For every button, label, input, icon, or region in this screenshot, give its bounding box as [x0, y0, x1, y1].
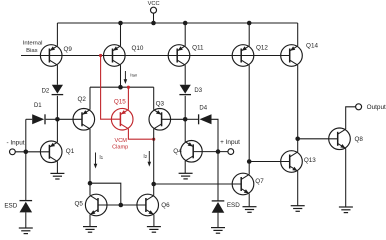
transistor Q10: [104, 45, 126, 67]
wire Q8 collector to output: [346, 107, 356, 129]
wire Q8 base: [298, 138, 338, 140]
wire Q13 emitter: [297, 171, 299, 206]
svg-text:Clamp: Clamp: [112, 144, 128, 150]
wire Q14 collector: [297, 65, 299, 139]
ground Q13: [291, 206, 305, 212]
terminal - Input: [10, 149, 16, 155]
wire - Input to Q1 base: [15, 151, 49, 153]
junction mirror-left: [88, 181, 93, 186]
wire Q3 collector: [153, 129, 155, 184]
svg-text:Q2: Q2: [77, 96, 86, 103]
svg-text:Q14: Q14: [306, 43, 318, 50]
svg-text:Internal: Internal: [23, 40, 43, 46]
svg-text:VCM: VCM: [114, 138, 127, 144]
transistor Q4: [181, 141, 203, 163]
wire Q11 collector: [184, 65, 186, 85]
diode D4: [199, 114, 212, 124]
wire Q2 collector: [89, 129, 91, 183]
diode D1: [32, 114, 45, 124]
wire Q5 emitter: [89, 215, 91, 227]
wire D2 to node A: [56, 96, 58, 120]
diode ESD1: [20, 201, 33, 213]
wire D3 to node B: [184, 96, 186, 120]
wire Q6 emitter: [153, 215, 155, 227]
diode D2: [52, 85, 64, 95]
svg-text:D1: D1: [34, 103, 42, 109]
wire Q8 emitter: [345, 148, 347, 207]
ground Q4: [179, 173, 193, 179]
junction +input-ESD: [216, 149, 221, 154]
wire Q1 collector: [56, 161, 58, 173]
transistor Q11: [168, 45, 190, 67]
ground Q1: [50, 173, 64, 179]
junction -input-ESD: [24, 150, 29, 155]
svg-text:D4: D4: [199, 106, 207, 112]
junction bias-Q15 (red): [99, 54, 102, 57]
label VCM Clamp: [112, 138, 128, 150]
junction Q14-Q13-Q8: [295, 137, 300, 142]
svg-text:D2: D2: [42, 88, 50, 94]
transistor Q14: [281, 45, 303, 67]
wire Q13 collector riser: [297, 139, 299, 152]
wire Q2 base: [57, 118, 82, 120]
svg-text:I2: I2: [143, 154, 147, 160]
svg-text:Q4: Q4: [173, 148, 182, 155]
transistor Q5: [85, 194, 107, 216]
diode D3: [179, 85, 191, 95]
wire VCC rail: [57, 22, 297, 24]
svg-text:Q13: Q13: [304, 157, 316, 164]
wire Q4 collector: [184, 161, 186, 173]
svg-text:Bias: Bias: [26, 48, 38, 54]
transistor Q12: [232, 45, 254, 67]
svg-text:ESD: ESD: [4, 203, 17, 210]
svg-text:Q12: Q12: [256, 44, 268, 51]
svg-text:Q9: Q9: [63, 46, 72, 53]
svg-text:Itail: Itail: [130, 73, 137, 78]
transistor Q2: [73, 109, 95, 131]
svg-text:Q6: Q6: [161, 202, 170, 209]
svg-text:Q11: Q11: [192, 44, 204, 51]
svg-text:Q8: Q8: [354, 136, 363, 143]
junction Q12-Q7-Q13: [247, 159, 252, 164]
junction tail-Q15 (red): [127, 86, 130, 89]
wire Q3 base: [162, 118, 186, 120]
terminal + Input: [228, 149, 234, 155]
svg-text:Q10: Q10: [131, 45, 143, 52]
wire tail line: [90, 86, 154, 88]
wire Q6 collector riser: [153, 184, 155, 195]
junction mirror-right: [151, 182, 156, 187]
wire Q2 emitter riser: [89, 87, 91, 110]
wire Q15 base L (red): [101, 56, 121, 120]
wire Q15 collector (red): [128, 129, 153, 139]
svg-text:Q7: Q7: [255, 178, 264, 185]
wire Q5-Q6 base line: [98, 204, 146, 206]
svg-text:+ Input: + Input: [220, 139, 240, 146]
ground Q7: [243, 207, 257, 213]
transistor Q9: [40, 45, 62, 67]
svg-text:Output: Output: [367, 104, 386, 111]
wire node B to D4: [185, 118, 198, 120]
junction rail-Q10: [118, 21, 123, 26]
ground ESD1: [19, 228, 33, 234]
wire Q4 base: [193, 151, 228, 153]
junction rail-Q11: [183, 21, 188, 26]
svg-text:ESD: ESD: [227, 202, 240, 209]
wire Q15 emitter (red): [127, 87, 129, 109]
wire Q7 emitter: [248, 194, 250, 207]
wire node A to Q1 emitter: [56, 119, 58, 142]
wire Q9 collector: [56, 65, 58, 85]
svg-text:Q1: Q1: [66, 148, 75, 155]
wire mirror diode connection: [90, 183, 121, 205]
wire D4 anode to +input: [212, 119, 219, 151]
transistor Q8: [329, 128, 351, 150]
svg-text:Q3: Q3: [156, 100, 165, 107]
transistor Q13: [281, 151, 303, 173]
wire ESD1 column: [25, 152, 27, 201]
transistor Q6: [137, 194, 159, 216]
wire ESD1 to ground: [25, 212, 27, 228]
transistor Q7: [232, 173, 254, 195]
current arrow Itail: [124, 71, 128, 84]
junction mirror-base: [119, 203, 124, 208]
junction node B: [183, 117, 188, 122]
wire Q5 collector riser: [89, 183, 91, 195]
ground Q8: [339, 207, 353, 213]
transistor Q15: [111, 108, 133, 130]
wire Q13 base: [249, 161, 290, 163]
wire Q11 emitter: [184, 23, 186, 46]
wire D1 cathode to node A: [46, 118, 58, 120]
wire mirror out to Q7 base: [154, 183, 242, 185]
svg-text:- Input: - Input: [6, 140, 24, 147]
current arrow I2: [148, 151, 152, 167]
transistor Q3: [149, 109, 171, 131]
wire ESD2 column: [217, 152, 219, 201]
wire Q14 emitter: [297, 23, 299, 46]
svg-text:I1: I1: [99, 155, 103, 161]
current arrow I1: [94, 153, 98, 169]
diode ESD2: [212, 201, 225, 213]
wire Q7 collector riser: [248, 162, 250, 175]
terminal Output: [356, 104, 362, 110]
wire Q12 collector: [248, 65, 250, 161]
wire Q10 emitter: [120, 23, 122, 46]
wire D1 anode drop: [25, 119, 27, 152]
wire Q4 emitter: [184, 119, 186, 142]
wire Q9 emitter: [56, 23, 58, 46]
transistor Q1: [40, 141, 62, 163]
wire ESD2 to ground: [217, 213, 219, 228]
svg-text:Q5: Q5: [74, 200, 83, 207]
junction rail-VCC: [151, 21, 156, 26]
wire Q12 emitter: [248, 23, 250, 46]
power VCC terminal: [151, 7, 157, 23]
junction node A: [55, 117, 60, 122]
svg-text:Q15: Q15: [114, 98, 126, 105]
svg-text:VCC: VCC: [148, 1, 160, 7]
ground Q6: [147, 227, 161, 233]
ground Q5: [83, 227, 97, 233]
wire internal bias line: [21, 55, 290, 57]
svg-text:D3: D3: [194, 88, 202, 94]
junction Q15-Q3 (red): [152, 138, 155, 141]
wire Q10 collector: [120, 65, 122, 87]
net label Internal Bias: [23, 40, 43, 54]
wire Q3 emitter riser: [153, 87, 155, 110]
junction rail-Q12: [247, 21, 252, 26]
wire D1 anode: [26, 118, 32, 120]
junction tail-Q10: [118, 85, 123, 90]
ground ESD2: [211, 228, 225, 234]
